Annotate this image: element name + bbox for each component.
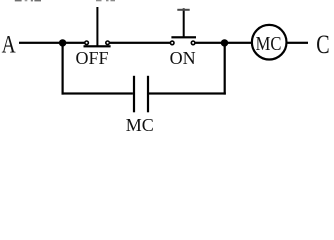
branch wire bottom rail right	[149, 92, 226, 94]
contact MC left plate	[133, 76, 135, 113]
svg-text:MC: MC	[256, 33, 282, 55]
svg-text:OFF: OFF	[76, 48, 109, 68]
contactor coil MC label	[256, 33, 282, 55]
pushbutton OFF (NC) left terminal	[85, 41, 89, 45]
pushbutton OFF (NC) right terminal	[106, 41, 110, 45]
pushbutton ON (NO) contact bar	[171, 36, 196, 38]
junction dot 1	[59, 39, 66, 46]
wire A to OFF	[19, 42, 85, 44]
svg-text:MC: MC	[126, 115, 154, 135]
pushbutton OFF (NC) contact bar	[84, 45, 111, 47]
branch wire right vertical	[224, 43, 226, 95]
cropped text remnant top middle	[96, 0, 115, 1]
contact MC right plate	[147, 76, 149, 113]
node A	[2, 30, 17, 58]
svg-text:ON: ON	[170, 48, 196, 68]
pushbutton OFF (NC) actuator stem	[96, 7, 98, 47]
svg-text:C: C	[316, 31, 329, 60]
contactor coil MC circle	[252, 25, 287, 60]
pushbutton ON (NO) actuator button cap	[177, 9, 189, 11]
cropped text remnant top left	[15, 0, 41, 1]
pushbutton ON (NO) actuator stem	[183, 8, 185, 37]
junction dot 2	[221, 39, 228, 46]
wire ON to coil	[196, 42, 252, 44]
label OFF	[76, 48, 109, 68]
svg-text:A: A	[2, 30, 17, 58]
wire OFF to ON	[109, 42, 170, 44]
branch wire bottom rail left	[62, 92, 133, 94]
label MC	[126, 115, 154, 135]
pushbutton ON (NO) right terminal	[191, 41, 195, 45]
branch wire left vertical	[62, 43, 64, 95]
node C	[316, 31, 329, 60]
label ON	[170, 48, 196, 68]
pushbutton ON (NO) left terminal	[170, 41, 174, 45]
wire coil to C	[288, 42, 309, 44]
